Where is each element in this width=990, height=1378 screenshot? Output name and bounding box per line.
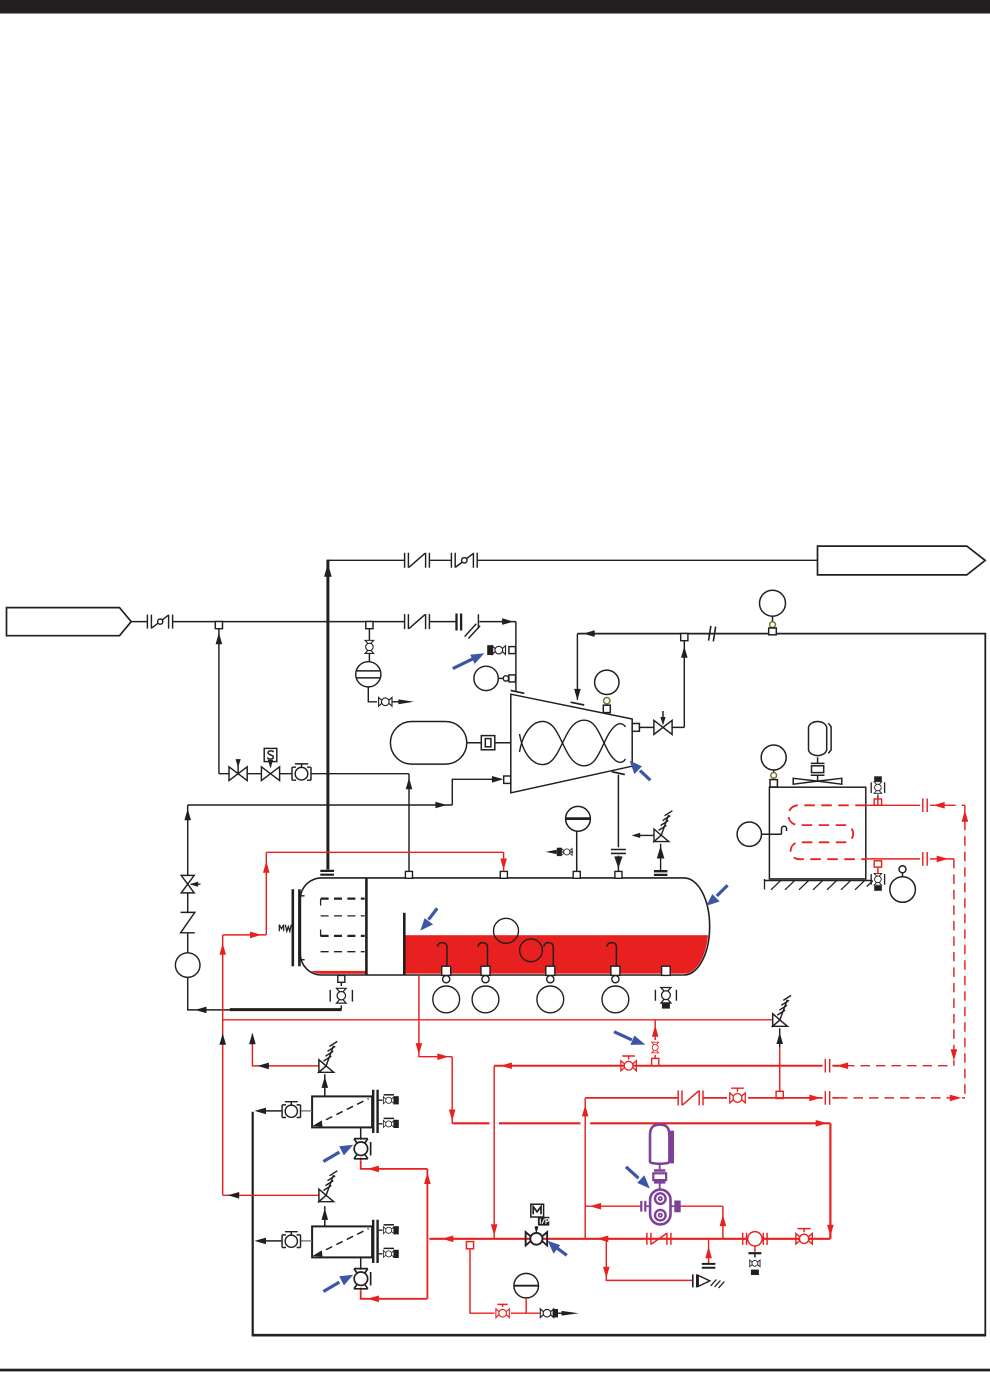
callout: control valve <box>558 1248 567 1255</box>
wire: cooler outlet to dashed drop <box>866 858 954 860</box>
PSV on line 1 (black) <box>773 995 791 1047</box>
wire: steam outlet line y=560.3 <box>328 559 818 561</box>
drain terminal flange+plug <box>693 1274 725 1288</box>
cooler support w/ hatching <box>764 880 872 882</box>
trip valve on inlet branch <box>488 646 516 655</box>
inlet line drain cluster at x=369.4 <box>366 622 373 629</box>
pump suction flange <box>641 1201 645 1212</box>
wire: extraction riser x=684.3 <box>672 641 684 728</box>
callout: trip valve <box>453 658 474 668</box>
wire: line 4 to pump header <box>452 1123 830 1239</box>
filter A inlet valve <box>255 1102 313 1118</box>
filter B inlet valve <box>255 1232 313 1248</box>
capped vent stub on header <box>708 1239 710 1264</box>
pump discharge flange (solid) <box>674 1201 680 1213</box>
filter B vent to PSV <box>324 1206 326 1226</box>
off-page flag: steam outlet <box>818 546 986 575</box>
wire: gauge branch to bottom <box>470 1249 540 1313</box>
spectacle blind on inlet line <box>147 615 172 629</box>
right sample valve under drum <box>655 966 676 1008</box>
orifice + spec break on inlet line <box>457 614 462 631</box>
wire: line 3 (cooler feed) <box>585 1097 838 1099</box>
gate valve (train 1) <box>229 762 247 780</box>
globe valve on level column <box>181 875 200 893</box>
cooler inlet nozzle square <box>874 799 881 805</box>
pressure gauge bottom <box>514 1273 539 1298</box>
manway label MW <box>279 925 291 932</box>
wire: bottom return header <box>252 1334 986 1337</box>
turbine bottom exhaust tick <box>612 772 625 775</box>
wire: main inlet line y=621.6 <box>131 621 516 623</box>
fan motor on cooler <box>793 722 842 785</box>
manway flange <box>293 889 300 966</box>
wire: level column x=187.7 <box>188 805 204 1010</box>
filter B outlet flange <box>373 1220 377 1263</box>
turbine top nozzle tick <box>571 702 585 705</box>
strainer pot on header <box>743 1232 767 1252</box>
gate valve, extraction <box>654 711 672 735</box>
wire: pump B discharge <box>361 1290 428 1299</box>
solenoid valve S <box>261 762 279 781</box>
cooler box <box>769 787 865 879</box>
node: gauge tap square on header <box>466 1242 473 1249</box>
steam outlet flange on drum top <box>320 871 334 875</box>
Z flex joint <box>181 912 195 932</box>
turbine internals zigzag <box>520 721 626 765</box>
filter A outlet flange <box>373 1090 377 1133</box>
wire: main pump suction header <box>429 1238 830 1240</box>
wire: pump A discharge <box>361 1160 428 1169</box>
wire: pump discharge manifold x=427.4 <box>426 1169 428 1299</box>
header black bar <box>0 0 990 14</box>
wire: line3-to-header drop x=585.2 <box>584 1098 586 1239</box>
off-page flag: gas inlet <box>7 608 132 636</box>
dip tube hooks <box>438 943 447 974</box>
wire: drum drain run (thick) <box>204 1009 231 1011</box>
expansion joint w/ circle on steam line <box>451 553 477 568</box>
wire: turbine exhaust header y=633.6 <box>577 634 985 1337</box>
control ball valve (train 3) <box>292 764 311 780</box>
wire: inlet branch x=515.9 <box>515 622 517 692</box>
filter B pump <box>360 1258 362 1291</box>
cooler outlet nozzle square <box>874 861 881 867</box>
cooler outlet gauge <box>890 866 916 903</box>
valve train line y=773.7 <box>219 773 409 775</box>
callout: pump A <box>323 1152 339 1161</box>
wire: drum outlet drop x=418.9 <box>419 975 452 1123</box>
footer rule <box>0 1369 990 1372</box>
turbine speed gauge <box>595 670 619 713</box>
callout: turbine exhaust <box>640 771 650 781</box>
filter A body <box>312 1096 372 1127</box>
pump casing <box>650 1190 670 1225</box>
cooler top gauge <box>761 745 786 787</box>
arrow into corner, inlet line <box>502 618 514 625</box>
turbine inlet flange tick <box>511 690 525 693</box>
drum PSV <box>632 811 673 871</box>
sample valve (black) + arrow <box>540 1309 579 1318</box>
wire: dashed riser to cooler inlet x=964.9 <box>964 805 966 1098</box>
gland condenser vessel <box>390 722 466 765</box>
drain branch from header <box>606 1239 692 1281</box>
expansion joint on inlet line <box>405 614 430 629</box>
wire: line 2 (cooler outlet return) <box>494 1065 839 1067</box>
cooler coil (dashed) <box>788 805 866 859</box>
drum internal divider <box>365 878 368 975</box>
speed gauge on inlet branch <box>474 666 516 690</box>
node: tee on exhaust header <box>681 634 688 641</box>
internal instrument circles <box>494 918 519 943</box>
drum liquid (red fill) <box>302 935 711 974</box>
demister dashed rows <box>321 899 365 936</box>
valve on line 2 <box>621 1056 636 1071</box>
wire: condensate return riser x=222.7 <box>222 935 224 1195</box>
pressure gauge on drum <box>566 806 591 871</box>
callout: bypass valve <box>614 1032 632 1040</box>
valve on line 3 <box>730 1088 745 1103</box>
callout: pump B <box>323 1282 339 1291</box>
callout: drum shell <box>717 885 728 896</box>
wire: drop to valve train x=218.9 <box>218 629 220 774</box>
filter A vent to PSV <box>324 1074 326 1096</box>
node: turbine trip nozzle <box>504 776 511 783</box>
PSV-B discharge (filter B) <box>223 1194 319 1196</box>
cooler outlet root valve (bottom) <box>871 873 884 890</box>
check valve on header <box>647 1233 671 1245</box>
callout: recirc pump <box>626 1167 639 1178</box>
isolation valve on header (red) <box>796 1229 812 1245</box>
wire: level line y=805 <box>188 779 497 805</box>
wire: cooler inlet from dashed riser <box>866 804 946 806</box>
pump motor <box>650 1125 669 1164</box>
filter B body <box>312 1226 372 1257</box>
filter A vent valves <box>379 1095 399 1128</box>
filter A pump <box>360 1128 362 1161</box>
bypass valve line1-line2 at x=655.2 <box>654 1020 656 1059</box>
shaft coupling <box>467 742 511 744</box>
wire: line 2 drop x=494 <box>493 1066 495 1239</box>
callout: drum weir <box>429 908 438 919</box>
PSV inlet flange on drum <box>654 871 668 875</box>
drum weir <box>403 913 406 975</box>
cooler inlet root valve (top) <box>871 776 884 799</box>
PSV-A discharge (filter A) <box>252 1034 319 1066</box>
wire: recirc pump suction/discharge <box>585 1206 723 1239</box>
wire: return jog to drum inlet <box>223 852 504 935</box>
wire: main steam riser (thick) x=327.9 <box>326 560 329 870</box>
wire: LP condensate line 1 <box>223 1019 773 1021</box>
instrument circle on level column <box>175 953 200 978</box>
pump coupling <box>659 1163 661 1189</box>
wire: x=409 drop to drum <box>408 774 410 872</box>
root valve (red) on gauge branch <box>496 1304 509 1317</box>
filter B vent valves <box>379 1225 399 1258</box>
turbine exhaust nozzle square <box>632 724 639 732</box>
cooler thermometer gauge <box>737 822 786 846</box>
wire: governor drop x=577.4 to turbine <box>576 634 578 700</box>
drum shell <box>300 878 709 975</box>
steam turbine body <box>511 694 632 793</box>
gauge root valve w/ vent <box>546 848 573 856</box>
wire: dashed drop from cooler outlet x=953.9 <box>953 859 955 1066</box>
node: tee to valve train <box>215 622 222 629</box>
drum bottom drain valve <box>330 975 352 1009</box>
expansion joint on steam line <box>405 553 430 568</box>
S label text <box>268 751 274 759</box>
wire: exhaust drop to drum x=618.4 <box>617 775 619 872</box>
blowdown valve under strainer (black) <box>748 1253 761 1275</box>
drum top nozzles <box>405 871 622 878</box>
drain pot columns under drum <box>433 966 460 1013</box>
